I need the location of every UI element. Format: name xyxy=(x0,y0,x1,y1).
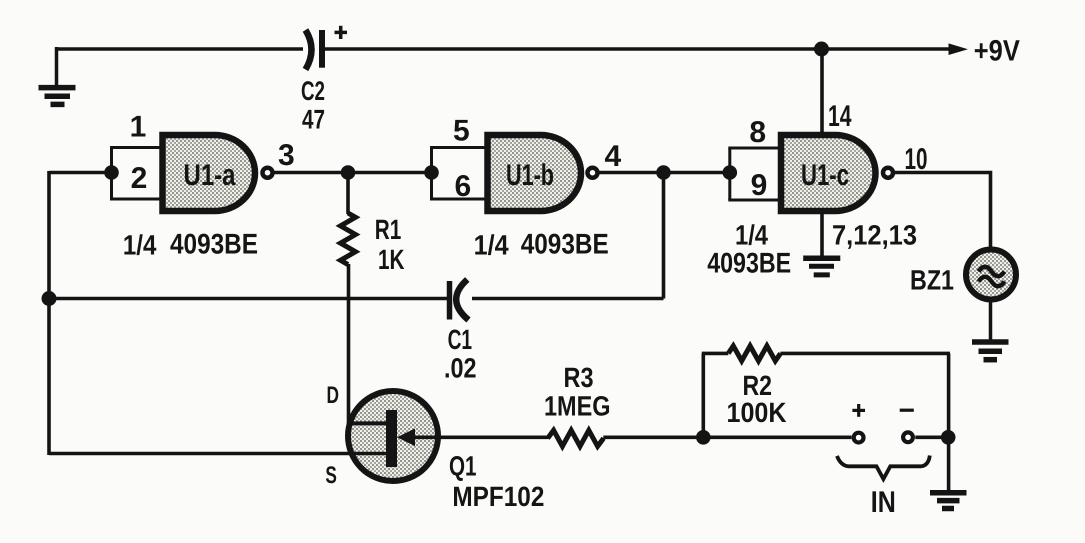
node feedback left junction xyxy=(42,291,57,306)
wire R1 bottom lead to Q1 drain xyxy=(347,264,351,425)
wire R2 top left xyxy=(702,352,729,356)
svg-text:1MEG: 1MEG xyxy=(544,391,611,422)
U1-c output bubble xyxy=(883,168,893,178)
C1 curved plate xyxy=(456,280,468,321)
Q1 channel bar xyxy=(386,410,397,467)
wire R2 top right xyxy=(780,352,950,356)
label + xyxy=(852,404,865,417)
Q1 body circle xyxy=(348,391,438,481)
svg-text:14: 14 xyxy=(828,100,852,133)
svg-text:C2: C2 xyxy=(301,76,325,106)
svg-text:D: D xyxy=(327,382,340,409)
svg-text:+9V: +9V xyxy=(974,35,1020,68)
svg-text:S: S xyxy=(325,462,337,489)
wire pin4 feedback drop xyxy=(662,173,666,299)
node IN junction xyxy=(941,430,956,445)
svg-text:1/4: 1/4 xyxy=(123,230,157,261)
node pin4 junction xyxy=(656,165,671,180)
resistor R3 xyxy=(544,362,611,446)
wire U1-a output row xyxy=(275,171,432,175)
brace IN xyxy=(837,456,930,480)
svg-text:MPF102: MPF102 xyxy=(452,481,544,512)
svg-text:R1: R1 xyxy=(375,214,402,245)
gate U1-b xyxy=(488,135,598,211)
BZ1 body circle xyxy=(966,250,1016,300)
node U1-b input junction xyxy=(424,165,439,180)
svg-text:4093BE: 4093BE xyxy=(707,248,791,280)
wire pin 14 drop xyxy=(820,49,824,137)
U1-b output bubble xyxy=(588,168,598,178)
wire source feedback row xyxy=(49,452,386,456)
ground (BZ1) xyxy=(972,342,1009,360)
U1-a output bubble xyxy=(263,168,273,178)
svg-text:4093BE: 4093BE xyxy=(521,229,609,261)
svg-text:.02: .02 xyxy=(444,353,477,384)
wire feedback mid line left xyxy=(49,297,448,301)
resistor R2 xyxy=(727,346,787,428)
terminal + xyxy=(854,433,864,443)
buzzer BZ1 xyxy=(910,250,1016,300)
BZ1 wave symbol upper xyxy=(979,267,1005,277)
svg-text:4093BE: 4093BE xyxy=(170,229,258,261)
svg-text:47: 47 xyxy=(302,105,325,135)
gate U1-b input bracket (pins 5,6) xyxy=(430,148,489,200)
svg-text:9: 9 xyxy=(751,169,768,202)
transistor Q1 xyxy=(325,382,548,512)
R1 zigzag xyxy=(341,213,356,265)
capacitor C2 xyxy=(301,26,347,135)
svg-text:BZ1: BZ1 xyxy=(910,265,954,296)
Q1 drain internal lead xyxy=(349,421,387,425)
node VCC junction (pin 14 tap) xyxy=(814,42,829,57)
svg-text:100K: 100K xyxy=(727,397,787,428)
svg-text:Q1: Q1 xyxy=(449,451,477,482)
terminal - xyxy=(903,432,913,442)
ground (IN) xyxy=(930,493,967,509)
Q1 gate arrowhead xyxy=(397,429,415,447)
svg-text:3: 3 xyxy=(278,139,295,172)
wire top supply rail right segment xyxy=(325,47,950,51)
svg-text:6: 6 xyxy=(454,170,471,203)
C1 straight plate xyxy=(447,281,453,320)
wire U1-c output xyxy=(895,173,991,253)
svg-text:U1-a: U1-a xyxy=(184,159,236,192)
wire BZ1 ground stem xyxy=(989,300,993,341)
C2 polarity + xyxy=(335,31,348,35)
gate U1-a input bracket (pins 1,2) xyxy=(110,148,164,200)
svg-text:C1: C1 xyxy=(448,324,473,355)
wire gate row to IN xyxy=(603,435,851,439)
node U1-a input junction xyxy=(104,165,119,180)
wire IN right vertical xyxy=(947,353,951,491)
ground (top-left) xyxy=(39,88,76,105)
wire top supply rail left segment xyxy=(56,47,303,51)
svg-text:5: 5 xyxy=(453,115,470,148)
wire - to junction xyxy=(915,435,945,439)
wire feedback mid line right xyxy=(472,297,664,301)
node R2 tap xyxy=(696,430,711,445)
svg-text:1/4: 1/4 xyxy=(735,220,768,251)
svg-text:7,12,13: 7,12,13 xyxy=(832,220,917,251)
+9V arrowhead xyxy=(949,43,969,55)
wire ground drop top-left xyxy=(55,47,59,87)
R2 zigzag xyxy=(728,346,780,361)
capacitor C1 xyxy=(444,280,477,384)
gate U1-c input bracket (pins 8,9) xyxy=(728,148,782,200)
svg-text:4: 4 xyxy=(604,140,621,173)
wire pin 7 ground stem xyxy=(820,209,824,257)
node R1 tap xyxy=(341,165,356,180)
gate U1-a xyxy=(163,135,273,211)
BZ1 wave symbol lower xyxy=(979,277,1005,287)
svg-text:2: 2 xyxy=(131,162,148,195)
resistor R1 xyxy=(341,173,405,425)
gate U1-c xyxy=(781,135,893,211)
node U1-c input junction xyxy=(723,165,738,180)
U1-b gate body xyxy=(488,135,582,211)
label minus xyxy=(900,409,914,412)
svg-text:1: 1 xyxy=(130,111,147,144)
wire left feedback vertical xyxy=(47,171,51,455)
svg-text:IN: IN xyxy=(871,486,896,519)
svg-text:8: 8 xyxy=(749,116,766,149)
wire R1 top lead xyxy=(346,173,350,215)
ground (U1-c pin 7) xyxy=(803,258,840,275)
R3 zigzag xyxy=(548,430,604,446)
svg-text:U1-b: U1-b xyxy=(506,159,554,192)
C2 curved plate xyxy=(306,30,312,70)
U1-a gate body xyxy=(163,135,256,211)
wire U1-b output row xyxy=(600,171,730,175)
U1-c gate body xyxy=(781,135,876,211)
wire left input row xyxy=(49,171,112,175)
C2 straight plate xyxy=(319,30,325,68)
svg-text:U1-c: U1-c xyxy=(801,159,849,192)
wire Q1 gate to R3 xyxy=(412,435,549,439)
wire R2 branch up xyxy=(701,353,705,437)
svg-text:1K: 1K xyxy=(378,244,405,275)
svg-text:1/4: 1/4 xyxy=(474,230,509,261)
svg-text:R3: R3 xyxy=(564,362,594,393)
